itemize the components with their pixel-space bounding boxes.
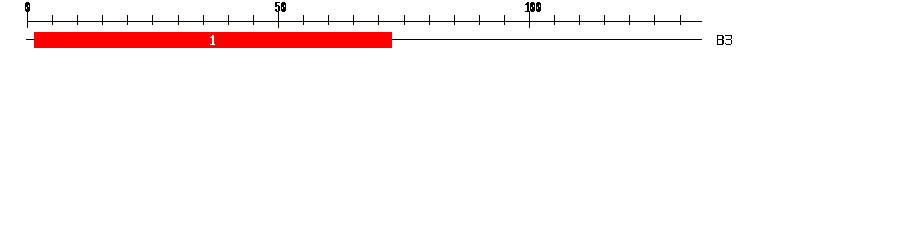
major tick 100 [529,12,531,28]
minor tick 40 [228,15,230,25]
bar label 1 [210,35,215,45]
minor tick 65 [353,15,355,25]
minor tick 15 [102,15,104,25]
minor tick 90 [479,15,481,25]
ruler axis line [27,21,702,23]
major tick 50 [278,12,280,28]
ruler label 100 [525,2,541,12]
ruler label 50 [275,2,286,12]
minor tick 85 [454,15,456,25]
minor tick 10 [77,15,79,25]
minor tick 20 [127,15,129,25]
minor tick 95 [504,15,506,25]
minor tick 75 [404,15,406,25]
minor tick 5 [52,15,54,25]
minor tick 25 [152,15,154,25]
major tick 0 [27,12,29,28]
minor tick 125 [654,15,656,25]
row label B3 [717,35,732,45]
minor tick 70 [378,15,380,25]
minor tick 35 [203,15,205,25]
minor tick 60 [328,15,330,25]
minor tick 110 [579,15,581,25]
minor tick 45 [253,15,255,25]
timeline baseline [26,39,702,41]
minor tick 30 [178,15,180,25]
minor tick 130 [680,15,682,25]
minor tick 55 [303,15,305,25]
minor tick 80 [429,15,431,25]
ruler label 0 [25,2,30,12]
minor tick 115 [604,15,606,25]
minor tick 120 [629,15,631,25]
red task bar [34,32,392,48]
minor tick 105 [554,15,556,25]
